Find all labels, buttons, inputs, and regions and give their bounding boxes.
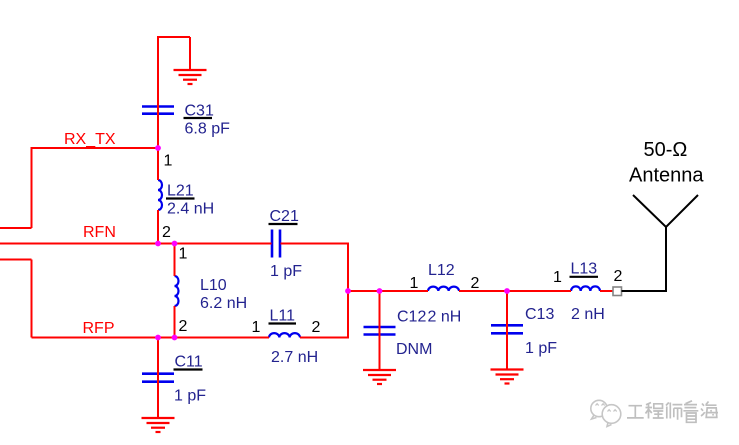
antenna bbox=[622, 195, 699, 291]
node C13 tap bbox=[504, 288, 510, 294]
label C13 bbox=[525, 306, 557, 357]
node C12 tap bbox=[377, 288, 383, 294]
svg-text:1: 1 bbox=[553, 269, 562, 286]
label 50-ohm antenna bbox=[629, 139, 704, 187]
svg-text:2: 2 bbox=[162, 224, 171, 241]
svg-text:50-Ω: 50-Ω bbox=[644, 139, 688, 161]
svg-text:1 pF: 1 pF bbox=[174, 388, 206, 405]
svg-text:2 nH: 2 nH bbox=[571, 306, 605, 323]
ground bbox=[142, 418, 175, 432]
watermark text bbox=[627, 401, 718, 423]
capacitor C31 bbox=[142, 107, 174, 114]
inductor L12 bbox=[428, 287, 459, 291]
svg-text:6.2 nH: 6.2 nH bbox=[200, 295, 247, 312]
svg-text:1 pF: 1 pF bbox=[270, 263, 302, 280]
inductor L10 bbox=[175, 276, 179, 306]
svg-text:RFP: RFP bbox=[83, 320, 115, 337]
svg-text:Antenna: Antenna bbox=[629, 165, 704, 187]
label L12 bbox=[428, 262, 462, 326]
svg-text:L12: L12 bbox=[428, 262, 455, 279]
ground bbox=[363, 370, 396, 384]
capacitor C13 bbox=[491, 325, 523, 333]
inductor L21 bbox=[158, 180, 162, 210]
capacitor C12 bbox=[364, 327, 396, 335]
svg-text:L10: L10 bbox=[200, 277, 227, 294]
label L11 bbox=[269, 308, 319, 367]
svg-text:2: 2 bbox=[312, 319, 321, 336]
svg-text:6.8 pF: 6.8 pF bbox=[185, 121, 231, 138]
svg-text:L21: L21 bbox=[167, 183, 194, 200]
inductor L13 bbox=[571, 286, 600, 291]
label C31 bbox=[184, 103, 231, 138]
svg-text:C11: C11 bbox=[175, 354, 203, 371]
node RFN junction L10 bbox=[172, 241, 178, 247]
svg-text:1: 1 bbox=[252, 319, 261, 336]
svg-text:2: 2 bbox=[471, 275, 480, 292]
svg-text:C13: C13 bbox=[525, 306, 554, 323]
label L10 bbox=[200, 277, 247, 312]
label L21 bbox=[166, 183, 214, 218]
svg-text:1: 1 bbox=[164, 153, 173, 170]
svg-text:2.7 nH: 2.7 nH bbox=[271, 349, 318, 366]
svg-text:2: 2 bbox=[614, 268, 623, 285]
node RX_TX junction bbox=[155, 145, 161, 151]
capacitor C21 bbox=[272, 230, 280, 258]
svg-text:C21: C21 bbox=[270, 208, 299, 225]
svg-text:C12: C12 bbox=[397, 309, 426, 326]
node RFP junction C11 bbox=[155, 335, 161, 341]
label C21 bbox=[269, 208, 303, 280]
watermark logo bbox=[591, 400, 621, 426]
svg-text:2: 2 bbox=[179, 318, 188, 335]
node output tap bbox=[345, 288, 351, 294]
ground bbox=[491, 370, 524, 384]
svg-text:1 pF: 1 pF bbox=[525, 340, 557, 357]
port square pin 2 of L13 bbox=[613, 287, 622, 296]
svg-text:2.4 nH: 2.4 nH bbox=[167, 201, 214, 218]
svg-text:2 nH: 2 nH bbox=[428, 309, 462, 326]
capacitor C11 bbox=[142, 374, 174, 382]
svg-text:L11: L11 bbox=[270, 308, 296, 325]
wire bbox=[0, 36, 613, 418]
node RFN junction L21 bbox=[155, 241, 161, 247]
svg-text:L13: L13 bbox=[571, 261, 598, 278]
svg-text:1: 1 bbox=[410, 275, 419, 292]
label L13 bbox=[570, 261, 605, 324]
label C12 bbox=[396, 309, 432, 359]
svg-text:DNM: DNM bbox=[396, 341, 432, 358]
ground bbox=[174, 70, 207, 84]
node RFP junction L10 bbox=[172, 335, 178, 341]
label C11 bbox=[174, 354, 207, 405]
svg-text:1: 1 bbox=[179, 246, 188, 263]
svg-text:RFN: RFN bbox=[83, 224, 116, 241]
inductor L11 bbox=[269, 333, 300, 337]
svg-text:RX_TX: RX_TX bbox=[64, 131, 116, 148]
